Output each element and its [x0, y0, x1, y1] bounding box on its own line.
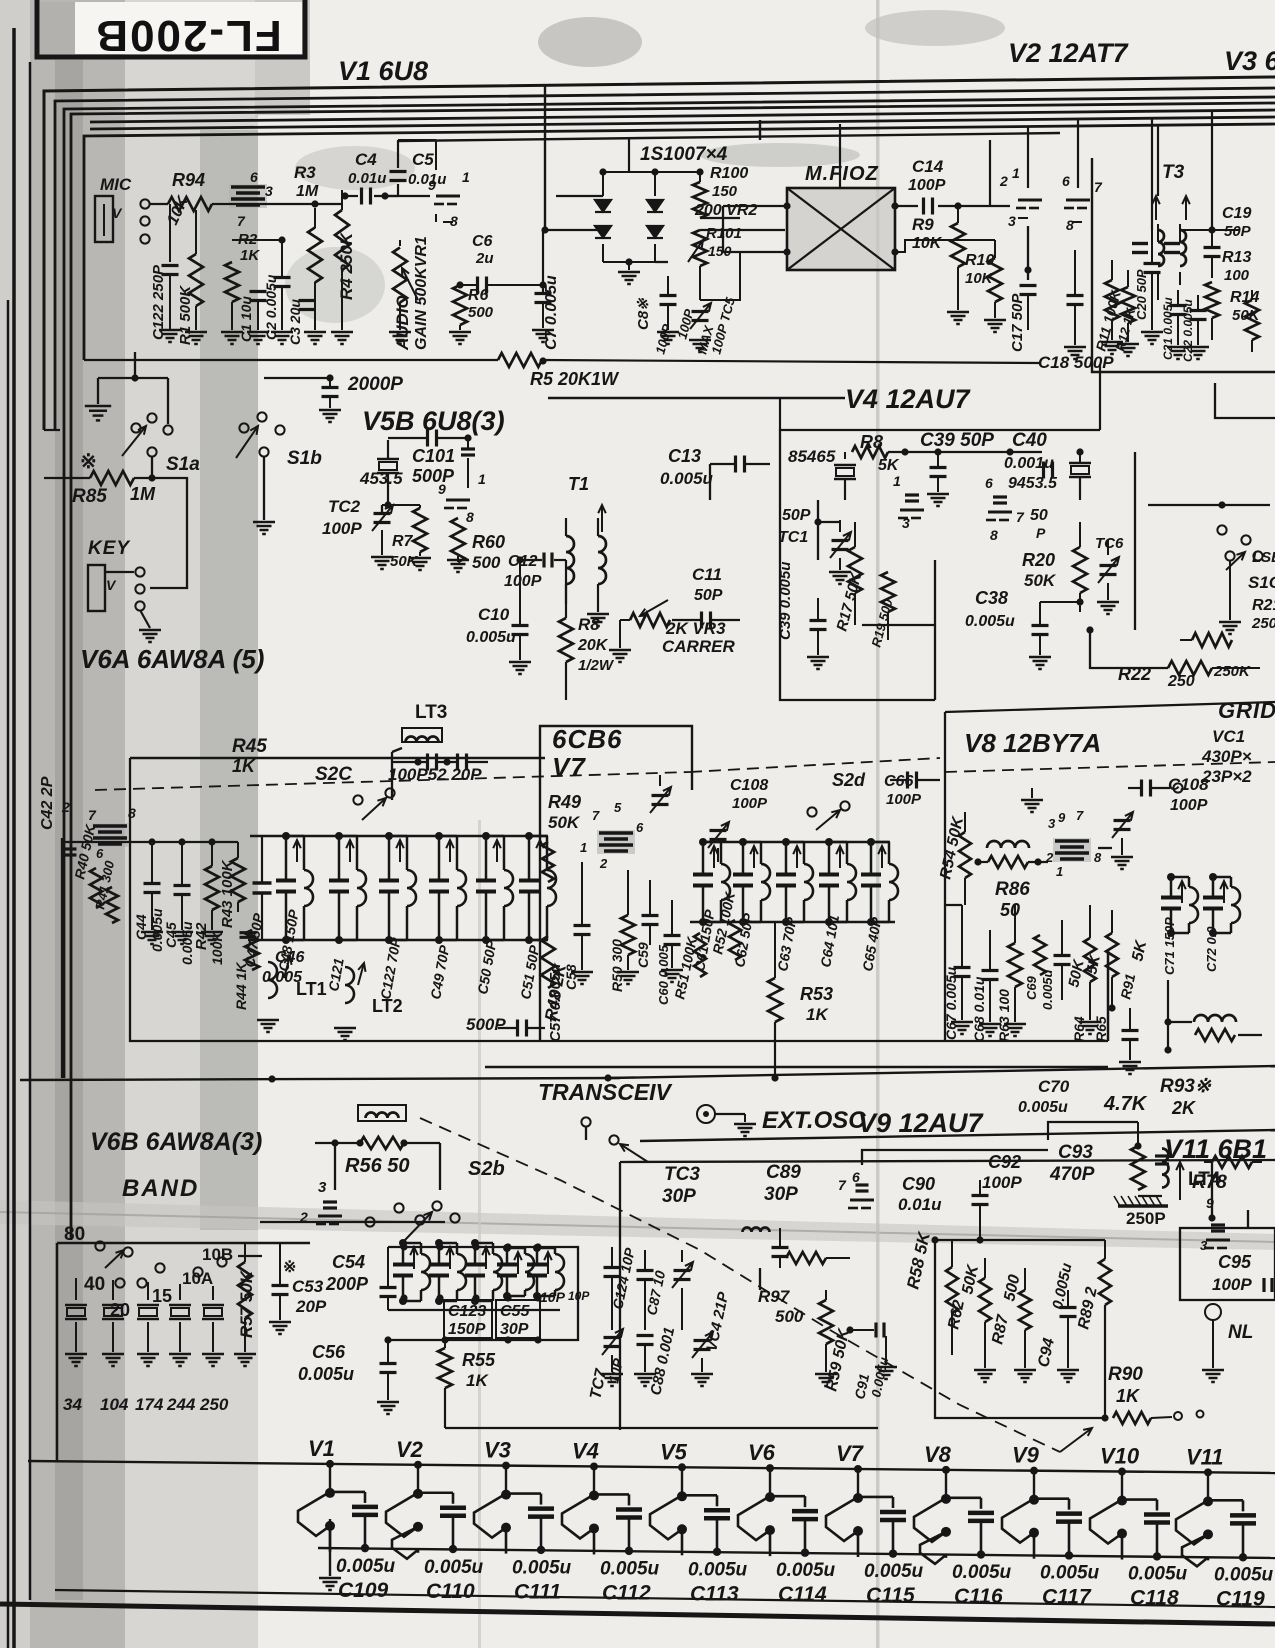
resistor R44 1K	[245, 930, 259, 970]
svg-text:V10: V10	[1100, 1444, 1140, 1469]
svg-text:V1: V1	[308, 1436, 335, 1461]
svg-text:3: 3	[318, 1179, 327, 1196]
mic jack contacts	[140, 199, 149, 208]
svg-text:3: 3	[1200, 1238, 1208, 1253]
svg-text:500P: 500P	[412, 466, 455, 486]
wire v5b to c13	[709, 464, 711, 500]
wire IF bus top	[250, 835, 548, 837]
wire c20 vertical	[1151, 118, 1153, 230]
svg-text:NL: NL	[1228, 1322, 1253, 1343]
heater bus bottom	[318, 1548, 1275, 1558]
svg-text:AUDIO: AUDIO	[393, 295, 412, 351]
coil R86 input	[987, 841, 1029, 848]
svg-text:6: 6	[852, 1169, 860, 1185]
svg-text:0.005u: 0.005u	[298, 1364, 354, 1384]
svg-text:MIC: MIC	[100, 175, 132, 194]
crystal 453.5	[377, 458, 399, 460]
svg-text:R57 50K: R57 50K	[237, 1269, 256, 1338]
svg-text:0.005u: 0.005u	[952, 1562, 1012, 1583]
svg-text:V7: V7	[552, 752, 586, 782]
capacitor C21 0.005	[1170, 304, 1187, 307]
svg-text:R60: R60	[472, 532, 505, 552]
svg-text:C13: C13	[668, 446, 701, 466]
svg-text:GAIN 500KVR1: GAIN 500KVR1	[413, 236, 430, 350]
svg-text:V11: V11	[1186, 1444, 1224, 1469]
tank IF3 C122 70P	[388, 836, 391, 879]
wire key to gnd	[140, 610, 150, 628]
V8 box	[944, 712, 946, 1041]
wire T3 right box	[1215, 383, 1275, 418]
jack NL	[1205, 1304, 1221, 1320]
top bus line 3	[64, 97, 1275, 1078]
coil LT4	[1162, 1149, 1169, 1188]
svg-text:C58: C58	[563, 964, 579, 990]
capacitor C67 0.005u	[954, 966, 971, 969]
switch S1C	[1217, 525, 1226, 534]
svg-text:C45: C45	[163, 922, 179, 948]
svg-text:R21: R21	[1252, 597, 1275, 614]
resistor R8 20K 1/2W	[559, 618, 573, 662]
trimmer TC7	[604, 1336, 621, 1339]
svg-text:100: 100	[1224, 267, 1250, 284]
svg-text:V7: V7	[836, 1441, 865, 1466]
svg-text:100P: 100P	[504, 573, 542, 590]
svg-text:C89: C89	[766, 1162, 801, 1183]
coil small mix	[743, 1228, 770, 1233]
svg-text:1K: 1K	[232, 756, 257, 776]
svg-text:R53: R53	[800, 984, 833, 1004]
svg-text:1: 1	[893, 473, 901, 489]
switch S1a	[131, 423, 140, 432]
resistor R59 50K	[819, 1300, 833, 1344]
svg-text:R3: R3	[294, 163, 316, 182]
svg-text:V8 12BY7A: V8 12BY7A	[964, 728, 1101, 758]
svg-text:C116: C116	[954, 1585, 1003, 1608]
svg-text:150P: 150P	[448, 1321, 486, 1338]
wire v2 pin vertical 2	[1077, 118, 1079, 188]
svg-text:S1a: S1a	[166, 454, 200, 475]
svg-text:1: 1	[1012, 165, 1020, 181]
svg-text:R7: R7	[392, 533, 414, 550]
resistor R17 50K	[848, 547, 862, 593]
trimmer top v7	[652, 794, 669, 797]
svg-text:C109: C109	[338, 1579, 389, 1602]
svg-text:50: 50	[1000, 900, 1020, 920]
svg-text:244: 244	[166, 1395, 196, 1414]
wire v2 pin vertical 1	[1027, 126, 1029, 188]
svg-text:6: 6	[636, 820, 644, 835]
svg-text:470P: 470P	[1049, 1164, 1095, 1185]
bottom page border	[0, 1604, 1275, 1624]
svg-text:R56 50: R56 50	[345, 1155, 410, 1177]
svg-text:0.005u: 0.005u	[776, 1560, 836, 1581]
svg-text:10B: 10B	[202, 1245, 233, 1264]
svg-text:2000P: 2000P	[347, 374, 403, 395]
wire v4 bus drop	[548, 397, 845, 399]
svg-text:C44: C44	[133, 914, 149, 940]
mic jack	[95, 196, 113, 242]
svg-text:0.005u: 0.005u	[688, 1559, 748, 1580]
vfo arrows bus	[388, 1246, 560, 1248]
tube V6A	[91, 823, 129, 847]
resistor R6 500	[453, 285, 467, 325]
svg-text:30P: 30P	[662, 1186, 696, 1207]
svg-text:C38: C38	[975, 588, 1008, 608]
svg-text:CARRER: CARRER	[662, 637, 735, 656]
capacitor C45	[174, 884, 191, 887]
svg-text:10P: 10P	[568, 1289, 590, 1303]
svg-text:R85: R85	[72, 486, 107, 507]
svg-text:C123: C123	[448, 1303, 486, 1320]
svg-text:R43 100K: R43 100K	[219, 859, 236, 928]
tank C62 50P	[742, 842, 745, 873]
svg-text:C117: C117	[1042, 1586, 1092, 1609]
svg-text:R90: R90	[1108, 1364, 1143, 1385]
svg-text:1K: 1K	[806, 1005, 829, 1024]
capacitor C70 0.005u	[1122, 1029, 1139, 1032]
svg-text:6: 6	[985, 475, 993, 491]
capacitor C20 50P	[1144, 262, 1161, 265]
tank C61 150P	[702, 842, 705, 873]
svg-text:9: 9	[428, 177, 436, 193]
svg-text:0.001u: 0.001u	[1004, 455, 1054, 472]
svg-text:C57 0.005u: C57 0.005u	[547, 964, 564, 1042]
svg-text:C112: C112	[602, 1581, 651, 1604]
svg-text:V8: V8	[924, 1442, 952, 1467]
svg-text:C1 10u: C1 10u	[238, 296, 254, 342]
svg-text:VC1: VC1	[1212, 727, 1245, 746]
svg-text:0.005u: 0.005u	[965, 613, 1015, 630]
svg-text:R45: R45	[232, 736, 267, 757]
svg-text:C95: C95	[1218, 1252, 1252, 1272]
wire r56 sides	[334, 1143, 336, 1190]
wire grid bus	[228, 203, 342, 205]
svg-text:9: 9	[1058, 810, 1066, 825]
scan gray wash left band	[0, 0, 260, 1648]
fold line horizontal	[0, 1200, 1275, 1250]
wire V1 plate up	[435, 140, 437, 170]
tube V7 6CB6	[597, 830, 635, 854]
svg-text:20K: 20K	[577, 637, 609, 654]
resistor R94	[168, 197, 212, 211]
ground hatched 250P	[1118, 1204, 1168, 1208]
svg-text:250: 250	[199, 1395, 229, 1414]
svg-text:R100: R100	[710, 165, 748, 182]
wire c19 vertical	[1211, 112, 1213, 230]
svg-text:C4: C4	[355, 150, 377, 169]
resistor R50 300	[621, 915, 635, 955]
svg-text:V1 6U8: V1 6U8	[338, 56, 428, 86]
svg-text:R6: R6	[468, 287, 489, 304]
IF box right vertical	[1107, 950, 1110, 1041]
svg-text:C40: C40	[1012, 430, 1047, 451]
svg-text:C6: C6	[472, 233, 493, 250]
svg-text:1: 1	[462, 169, 470, 185]
svg-text:9: 9	[438, 481, 446, 497]
svg-text:250: 250	[1167, 673, 1195, 690]
svg-text:R44 1K: R44 1K	[233, 962, 249, 1010]
left page border line	[12, 28, 16, 1648]
dashed line grid	[945, 762, 1275, 772]
svg-text:C5: C5	[412, 150, 434, 169]
svg-text:7: 7	[838, 1177, 847, 1193]
svg-text:R93※: R93※	[1160, 1076, 1212, 1097]
svg-text:R8: R8	[578, 615, 600, 634]
line ext osc 2	[640, 1130, 1275, 1141]
long line above transceiv	[20, 1078, 620, 1080]
svg-text:C69: C69	[1024, 975, 1039, 1000]
svg-text:4.7K: 4.7K	[1103, 1093, 1148, 1115]
resistor R48 2K	[541, 936, 555, 988]
wire mod out 2	[895, 240, 995, 252]
svg-text:LT2: LT2	[372, 996, 403, 1016]
jack ext osc	[697, 1105, 715, 1123]
svg-text:C18 500P: C18 500P	[1038, 353, 1114, 372]
svg-text:0.005u: 0.005u	[1214, 1564, 1274, 1585]
svg-text:V5: V5	[660, 1439, 688, 1464]
svg-text:250K: 250K	[1251, 615, 1275, 632]
svg-text:TRANSCEIV: TRANSCEIV	[538, 1079, 673, 1105]
trimmer VC4 21P	[674, 1269, 691, 1272]
svg-text:30P: 30P	[500, 1321, 529, 1338]
fold line vertical 2	[478, 820, 481, 1648]
svg-text:C114: C114	[778, 1583, 827, 1606]
resistor R55 1K	[438, 1348, 452, 1388]
svg-text:500: 500	[472, 553, 501, 572]
svg-text:R4 250K: R4 250K	[337, 231, 356, 300]
capacitors 100P52 20P	[426, 754, 429, 771]
wire v4 right drop	[1099, 364, 1101, 430]
tank C63 70P	[785, 842, 788, 873]
wire modulator left	[723, 205, 787, 207]
tank IF4 C49 70P	[438, 836, 441, 879]
resistor R7 50K	[413, 508, 427, 552]
svg-text:7: 7	[237, 213, 246, 229]
resistor R4 250K	[335, 210, 349, 270]
svg-text:3: 3	[902, 515, 910, 531]
capacitor C3 20u	[299, 299, 316, 302]
svg-text:9453.5: 9453.5	[1008, 475, 1058, 492]
capacitor C22 0.005	[1190, 309, 1207, 312]
svg-text:40: 40	[84, 1274, 105, 1295]
capacitor T3 tank plates	[1132, 242, 1148, 245]
wire r54 row	[945, 904, 962, 906]
svg-text:174: 174	[135, 1395, 164, 1414]
svg-text:TC2: TC2	[328, 497, 361, 516]
svg-text:200P: 200P	[325, 1274, 369, 1294]
svg-text:0.005u: 0.005u	[600, 1558, 660, 1579]
svg-text:6: 6	[1062, 173, 1070, 189]
resistor R1 500K	[189, 254, 203, 306]
VFO tank bank	[402, 1243, 405, 1263]
svg-text:50P: 50P	[1224, 223, 1252, 240]
svg-text:100P: 100P	[886, 791, 922, 808]
svg-text:R42: R42	[193, 922, 210, 950]
wire v2 to c14	[989, 140, 991, 206]
svg-text:100P: 100P	[322, 519, 362, 538]
coil R56 50	[358, 1105, 406, 1121]
wire R94 to grid	[212, 203, 228, 205]
svg-text:C101: C101	[412, 446, 455, 466]
vfo bottom bus	[388, 1309, 560, 1311]
wire right v11	[1247, 1210, 1249, 1228]
heater V1 ground	[329, 1519, 331, 1576]
svg-text:C54: C54	[332, 1252, 365, 1272]
svg-text:V4 12AU7: V4 12AU7	[845, 384, 972, 414]
svg-text:M.FIOZ: M.FIOZ	[805, 163, 879, 185]
svg-text:TC3: TC3	[664, 1164, 700, 1185]
wire V2 plate loop	[1027, 140, 1029, 160]
wire v4 out	[862, 624, 935, 626]
svg-text:8: 8	[466, 509, 474, 525]
svg-text:C22 0.005u: C22 0.005u	[1181, 299, 1195, 362]
top bus line 1	[44, 77, 1275, 430]
svg-text:6CB6: 6CB6	[552, 724, 622, 754]
wire v1b plate to bus	[759, 120, 761, 140]
ground key top	[131, 374, 138, 381]
svg-text:R64: R64	[1071, 1016, 1087, 1042]
svg-text:1K: 1K	[240, 247, 260, 264]
crystal 9453.5	[1069, 462, 1091, 464]
svg-text:C72 0.0: C72 0.0	[1204, 926, 1219, 972]
svg-text:2K: 2K	[1171, 1098, 1197, 1118]
svg-text:1: 1	[580, 840, 587, 855]
gray blotches top	[538, 17, 642, 67]
trimmer v8 grid	[1114, 819, 1131, 822]
svg-text:C122 250P: C122 250P	[150, 264, 167, 340]
wire r89 box	[935, 1239, 1105, 1241]
svg-text:453.5: 453.5	[359, 469, 403, 488]
svg-text:C53: C53	[292, 1277, 324, 1296]
svg-text:V5B 6U8(3): V5B 6U8(3)	[362, 406, 505, 436]
svg-text:R78: R78	[1192, 1172, 1227, 1193]
svg-text:500: 500	[468, 304, 494, 321]
resistor R63 100	[1008, 943, 1022, 987]
tank C65 40P	[870, 842, 873, 873]
svg-text:50P: 50P	[782, 507, 811, 524]
svg-text:C118: C118	[1130, 1587, 1179, 1610]
heater bus top	[28, 1461, 1275, 1473]
svg-text:S1b: S1b	[287, 448, 322, 469]
band box top line	[57, 1242, 310, 1245]
svg-text:8: 8	[1094, 850, 1102, 865]
svg-text:6: 6	[250, 169, 258, 185]
svg-text:7: 7	[1076, 808, 1084, 823]
svg-text:1M: 1M	[296, 183, 319, 200]
tank IF1 C48 150P	[285, 836, 288, 879]
svg-text:3: 3	[1048, 816, 1056, 831]
wire bridge riser	[628, 139, 630, 172]
top bus line 4	[71, 103, 1275, 1240]
svg-text:C14: C14	[912, 157, 944, 176]
svg-text:C56: C56	[312, 1342, 346, 1362]
svg-text:C19: C19	[1222, 205, 1251, 222]
top bus line 6	[90, 117, 1275, 129]
svg-text:V3: V3	[484, 1438, 511, 1463]
svg-text:150: 150	[712, 183, 738, 200]
svg-text:0.005u: 0.005u	[1128, 1564, 1188, 1585]
wire LT3 down	[391, 752, 393, 800]
crystal bank	[75, 1278, 77, 1300]
wire mixer box	[619, 1162, 621, 1430]
box C123 150P	[444, 1300, 492, 1338]
svg-text:R49: R49	[548, 792, 581, 812]
svg-text:1: 1	[1056, 864, 1063, 879]
svg-text:50K: 50K	[548, 813, 581, 832]
svg-text:R55: R55	[462, 1350, 496, 1370]
resistor R57 50K	[238, 1262, 252, 1318]
svg-text:C20 50P: C20 50P	[1134, 269, 1149, 320]
svg-text:C68 0.01u: C68 0.01u	[971, 976, 987, 1042]
capacitor C71 150P tank	[1170, 877, 1173, 896]
svg-text:0.01u: 0.01u	[348, 170, 386, 187]
coil LT1	[268, 962, 277, 998]
V4 box	[780, 430, 1100, 508]
svg-text:100P: 100P	[908, 177, 946, 194]
switch S1b	[239, 423, 248, 432]
tank C64 101	[828, 842, 831, 873]
resistor R19 500	[881, 572, 895, 612]
capacitor C87 10P	[637, 1269, 654, 1272]
svg-text:100P: 100P	[732, 795, 768, 812]
svg-text:5K: 5K	[878, 457, 900, 474]
svg-text:0.005u: 0.005u	[1040, 969, 1055, 1010]
left inner border line	[29, 62, 32, 1600]
top bus line 2	[55, 88, 1275, 430]
svg-text:3: 3	[265, 183, 273, 199]
svg-text:1K: 1K	[466, 1371, 489, 1390]
svg-text:C71 150P: C71 150P	[1162, 917, 1177, 975]
dashed mechanical line	[420, 1118, 1060, 1452]
svg-text:100P: 100P	[1212, 1275, 1252, 1294]
svg-text:104: 104	[100, 1395, 129, 1414]
svg-text:0.005u: 0.005u	[1040, 1563, 1100, 1584]
logo box FL-200B	[37, 0, 305, 57]
svg-text:430P×: 430P×	[1201, 747, 1252, 766]
top bus line 5	[90, 110, 1275, 122]
capacitor C122 250P	[169, 204, 171, 262]
capacitor C47 50P	[253, 881, 272, 885]
svg-text:20P: 20P	[295, 1297, 327, 1316]
svg-text:8: 8	[990, 527, 998, 543]
capacitor 2000P	[326, 374, 333, 381]
wire C7 to bridge	[543, 229, 603, 231]
svg-text:2: 2	[599, 856, 608, 871]
svg-text:50K: 50K	[1024, 571, 1057, 590]
svg-text:2K VR3: 2K VR3	[665, 619, 726, 638]
svg-text:C10: C10	[478, 605, 510, 624]
svg-text:7: 7	[88, 807, 97, 823]
svg-text:S1C: S1C	[1248, 573, 1275, 592]
svg-text:6: 6	[96, 846, 104, 861]
svg-text:C59: C59	[635, 942, 651, 968]
svg-text:250K: 250K	[1213, 663, 1251, 680]
svg-text:P: P	[1036, 525, 1046, 541]
resistor R42 100K	[205, 866, 219, 910]
wire v8 plate	[1098, 847, 1112, 849]
svg-text:R20: R20	[1022, 550, 1055, 570]
pot 2K VR3 CARRER	[630, 613, 670, 627]
wire IF2 bus top	[700, 841, 890, 843]
wire heater row	[62, 841, 238, 843]
svg-text:C113: C113	[690, 1582, 739, 1605]
svg-text:S2b: S2b	[468, 1158, 505, 1180]
svg-text:C2 0.005u: C2 0.005u	[263, 274, 279, 340]
svg-text:R65: R65	[1093, 1016, 1109, 1042]
capacitor C89	[772, 1246, 789, 1249]
svg-text:V6B 6AW8A(3): V6B 6AW8A(3)	[90, 1128, 262, 1156]
scan white interior	[258, 115, 1275, 1648]
